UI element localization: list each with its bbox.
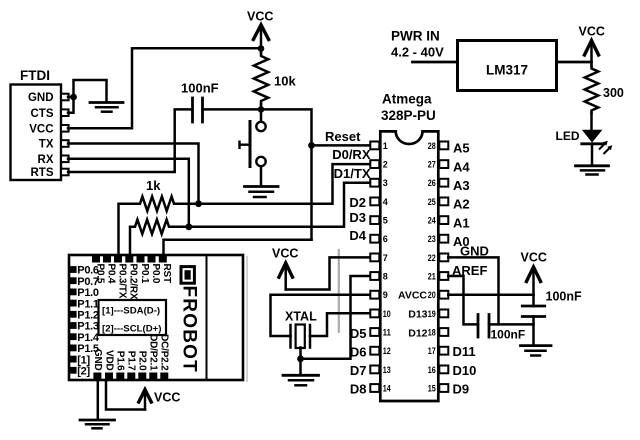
- wire module GND to ground: [97, 380, 100, 419]
- svg-text:328P-PU: 328P-PU: [381, 108, 436, 123]
- U1 pin 5: [370, 216, 388, 226]
- FTDI pin RTS: [31, 167, 69, 179]
- module pin P0.7: [70, 276, 99, 288]
- svg-text:7: 7: [383, 253, 388, 263]
- wire pin 20 AVCC to VCC: [448, 293, 533, 296]
- svg-text:D0/RX: D0/RX: [332, 147, 371, 162]
- svg-text:P0.5: P0.5: [94, 264, 105, 284]
- U1 pin 28: [428, 141, 449, 151]
- svg-text:P0.2/RX: P0.2/RX: [128, 264, 139, 300]
- module pin P0.2/RX: [125, 256, 138, 300]
- U1 pin 2: [370, 160, 388, 170]
- wire FTDI VCC to VCC rail: [68, 48, 261, 128]
- svg-text:LM317: LM317: [486, 63, 528, 78]
- wire LED to ground: [591, 144, 594, 165]
- U1 pin 4: [370, 197, 388, 207]
- svg-text:VCC: VCC: [154, 391, 180, 405]
- U1 pin 6: [370, 234, 388, 244]
- module pin P1.2: [70, 310, 99, 322]
- svg-text:D6: D6: [350, 345, 367, 360]
- svg-text:GND: GND: [28, 92, 54, 104]
- wire FTDI RX to node D1: [68, 159, 189, 227]
- FTDI connector body: [11, 85, 62, 181]
- wire junction to FTDI CTS: [68, 97, 74, 113]
- svg-text:Reset: Reset: [325, 129, 361, 144]
- svg-text:VCC: VCC: [272, 247, 298, 261]
- wire C1 to reset junction: [203, 108, 262, 111]
- U1 pin 15: [428, 383, 449, 393]
- svg-text:4: 4: [383, 197, 388, 207]
- svg-text:10k: 10k: [274, 74, 296, 89]
- svg-text:25: 25: [428, 197, 436, 207]
- svg-text:2: 2: [383, 160, 388, 170]
- wire AVCC node to C3: [532, 295, 535, 306]
- ground (module): [80, 420, 115, 428]
- svg-text:5: 5: [383, 216, 388, 226]
- module logo DFROBOT: [179, 267, 200, 373]
- FTDI pin GND: [28, 92, 69, 104]
- U1 pin 7: [370, 253, 388, 263]
- svg-text:D2: D2: [349, 195, 366, 210]
- VCC arrow (AVCC): [526, 267, 542, 295]
- svg-text:VCC: VCC: [247, 10, 273, 24]
- svg-text:D1/TX: D1/TX: [334, 166, 371, 181]
- module pin P2.0: [137, 351, 148, 380]
- svg-text:PWR IN: PWR IN: [391, 28, 440, 43]
- svg-text:10: 10: [383, 309, 391, 319]
- wire crystal left to pin 9: [271, 295, 371, 336]
- svg-text:15: 15: [428, 383, 436, 393]
- module pin VDD: [103, 350, 114, 380]
- svg-text:P1.6: P1.6: [115, 351, 126, 371]
- svg-text:24: 24: [428, 216, 436, 226]
- U1 pin 20: [428, 290, 449, 300]
- module pin GND: [92, 349, 103, 380]
- wire reset junction to reset vertical: [261, 109, 312, 239]
- U1 pin 10: [370, 309, 391, 319]
- VCC arrow (top): [253, 25, 270, 49]
- wire junction to ground: [74, 80, 107, 101]
- junction node D0: [195, 200, 202, 207]
- module pin DD/P2.1: [148, 334, 159, 379]
- U1 pin 21: [428, 271, 449, 281]
- svg-text:DD/P2.1: DD/P2.1: [148, 334, 159, 371]
- module pin P1.4: [70, 332, 100, 344]
- resistor R3 1k (RX line): [133, 220, 171, 234]
- resistor R1 10k: [254, 53, 268, 104]
- module pin P1.6: [115, 351, 126, 380]
- wire VCC to pin 7: [286, 257, 370, 289]
- svg-text:Atmega: Atmega: [382, 92, 432, 107]
- svg-text:D9: D9: [453, 381, 470, 396]
- wire node D0 to pin 2: [199, 164, 371, 204]
- U1 pin 8: [370, 271, 388, 281]
- svg-text:A1: A1: [453, 215, 470, 230]
- module pin P0.4: [103, 256, 116, 284]
- wire node D1 to pin 3: [189, 183, 370, 227]
- wire LM317 to VCC node: [557, 61, 592, 64]
- svg-text:DC/P2.2: DC/P2.2: [159, 334, 170, 371]
- svg-text:[1]---SDA(D-): [1]---SDA(D-): [102, 306, 160, 317]
- svg-text:3: 3: [383, 178, 388, 188]
- module pin [2]: [70, 366, 91, 378]
- capacitor C3 100nF (VCC decoupling): [522, 306, 544, 317]
- IC U1 body with notch: [380, 131, 438, 401]
- svg-text:TX: TX: [39, 139, 54, 151]
- svg-text:P1.1: P1.1: [77, 298, 99, 310]
- svg-text:300: 300: [603, 86, 624, 100]
- svg-text:1k: 1k: [146, 178, 161, 193]
- svg-text:22: 22: [428, 253, 436, 263]
- module I2C note box: [99, 300, 167, 335]
- U1 pin 18: [428, 327, 449, 337]
- svg-text:A5: A5: [453, 141, 470, 156]
- module inner divider: [206, 255, 208, 380]
- VCC arrow (LM317 output): [584, 41, 600, 67]
- svg-text:28: 28: [428, 141, 436, 151]
- wire FTDI TX to node D0: [68, 144, 199, 204]
- node VCC / 10k top junction: [258, 45, 265, 52]
- resistor R2 1k (TX line): [138, 197, 176, 211]
- capacitor C1 100nF: [193, 98, 203, 122]
- FTDI pin TX: [39, 139, 69, 151]
- U1 pin 11: [370, 327, 391, 337]
- wire FTDI RTS to capacitor C1: [68, 109, 193, 172]
- junction FTDI GND/CTS: [70, 94, 77, 101]
- LED D1: [582, 130, 613, 154]
- svg-text:AVCC: AVCC: [398, 289, 427, 301]
- module pin P1.5: [70, 343, 99, 355]
- svg-text:4.2 - 40V: 4.2 - 40V: [391, 45, 444, 60]
- svg-text:D11: D11: [453, 344, 476, 359]
- svg-text:P1.0: P1.0: [77, 287, 99, 299]
- svg-text:11: 11: [383, 327, 391, 337]
- svg-text:P0.4: P0.4: [105, 264, 116, 284]
- node Reset rail junction: [258, 106, 265, 113]
- module pin P0.0: [148, 256, 161, 284]
- wire PWR IN to LM317: [413, 61, 458, 64]
- module pin RST: [159, 256, 172, 283]
- svg-text:P1.2: P1.2: [77, 310, 99, 322]
- module pin DC/P2.2: [159, 334, 170, 379]
- svg-text:VDD: VDD: [103, 350, 114, 371]
- ground (AVCC decoupling): [521, 346, 552, 356]
- module U2 DFRobot body: [69, 255, 243, 380]
- U1 pin 3: [370, 178, 388, 188]
- wire R4 to LED: [590, 113, 593, 130]
- svg-text:GND: GND: [92, 349, 103, 371]
- svg-text:P0.0: P0.0: [150, 264, 161, 284]
- FTDI pin RX: [38, 154, 69, 166]
- junction Reset at pin 1: [308, 142, 315, 149]
- svg-text:RTS: RTS: [31, 167, 54, 179]
- svg-text:FTDI: FTDI: [20, 68, 50, 83]
- svg-text:P1.4: P1.4: [77, 332, 100, 344]
- ground (crystal): [283, 375, 319, 385]
- svg-text:D3: D3: [349, 210, 366, 225]
- svg-text:RST: RST: [161, 264, 172, 283]
- module pin P1.0: [70, 287, 99, 299]
- U1 pin 1: [370, 141, 388, 151]
- wire Reset to pin 1: [312, 144, 371, 147]
- svg-text:[2]: [2]: [77, 366, 90, 378]
- U1 pin 22: [428, 253, 449, 263]
- svg-text:P0.1: P0.1: [139, 264, 150, 284]
- wire FTDI GND to junction: [68, 96, 74, 99]
- svg-text:VCC: VCC: [29, 124, 53, 136]
- resistor R4 300: [585, 66, 599, 113]
- U1 pin 26: [428, 178, 449, 188]
- svg-text:D12: D12: [408, 327, 427, 339]
- svg-text:CTS: CTS: [31, 108, 54, 120]
- svg-text:100nF: 100nF: [181, 81, 219, 96]
- module pin P1.1: [70, 298, 99, 310]
- scan artifact gray line (module shadow): [246, 256, 248, 382]
- svg-text:P1.3: P1.3: [77, 321, 99, 333]
- pushbutton S1: [240, 120, 266, 168]
- svg-text:12: 12: [383, 346, 391, 356]
- svg-text:16: 16: [428, 365, 436, 375]
- ground (FTDI): [90, 103, 123, 112]
- U1 pin 13: [370, 365, 391, 375]
- U1 pin 27: [428, 160, 449, 170]
- svg-text:14: 14: [383, 383, 391, 393]
- wire pin 22 GND to ground rail: [448, 257, 498, 324]
- wire module VDD to VCC: [106, 380, 145, 410]
- module pin P1.3: [70, 321, 99, 333]
- U1 pin 16: [428, 365, 449, 375]
- wire crystal to ground: [299, 348, 302, 375]
- svg-text:P0.3/TX: P0.3/TX: [116, 264, 127, 299]
- svg-text:LED: LED: [556, 129, 580, 143]
- module pin P0.3/TX: [114, 256, 127, 299]
- module pin P1.7: [126, 351, 137, 380]
- wire 10k junction to button: [260, 109, 263, 121]
- U1 pin 12: [370, 346, 391, 356]
- crystal Y1: [291, 325, 311, 349]
- svg-text:D8: D8: [350, 382, 367, 397]
- module pin P0.6: [70, 265, 99, 277]
- svg-text:27: 27: [428, 160, 436, 170]
- scan artifact gray line (center): [338, 249, 340, 333]
- wire pin 21 AREF to capacitor C2: [448, 276, 478, 324]
- svg-text:[1]: [1]: [77, 354, 90, 366]
- VCC arrow (pin 7): [278, 263, 293, 290]
- regulator U3 LM317: [458, 41, 557, 91]
- svg-text:D5: D5: [350, 326, 367, 341]
- ground (button): [245, 187, 279, 198]
- svg-text:RX: RX: [38, 154, 54, 166]
- VCC arrow (module VDD): [138, 390, 152, 410]
- svg-text:D4: D4: [349, 228, 366, 243]
- svg-text:P2.0: P2.0: [137, 351, 148, 371]
- svg-text:23: 23: [428, 234, 436, 244]
- svg-text:[2]---SCL(D+): [2]---SCL(D+): [102, 324, 161, 335]
- wire C3 to ground: [532, 317, 535, 346]
- svg-text:100nF: 100nF: [546, 290, 582, 304]
- svg-text:P1.7: P1.7: [126, 351, 137, 371]
- U1 pin 9: [370, 290, 388, 300]
- svg-text:A2: A2: [453, 197, 470, 212]
- svg-text:19: 19: [428, 309, 436, 319]
- svg-text:VCC: VCC: [579, 24, 605, 38]
- U1 pin 14: [370, 383, 391, 393]
- module pin P0.5: [92, 256, 105, 284]
- ground (LED): [576, 166, 609, 175]
- wire pin 8 to crystal ground node: [301, 276, 371, 359]
- junction node D1: [185, 223, 192, 230]
- U1 pin 24: [428, 216, 449, 226]
- svg-text:20: 20: [428, 290, 436, 300]
- svg-text:9: 9: [383, 290, 388, 300]
- svg-text:100nF: 100nF: [491, 328, 526, 342]
- svg-text:1: 1: [383, 141, 388, 151]
- wire C2 to ground rail: [489, 323, 534, 326]
- svg-text:A3: A3: [453, 178, 470, 193]
- svg-text:18: 18: [428, 327, 436, 337]
- wire Reset to module RST: [164, 240, 312, 256]
- svg-text:26: 26: [428, 178, 436, 188]
- U1 pin 25: [428, 197, 449, 207]
- svg-text:D7: D7: [350, 363, 367, 378]
- module pin P0.1: [137, 256, 150, 284]
- U1 pin 23: [428, 234, 449, 244]
- svg-text:8: 8: [383, 271, 388, 281]
- svg-text:D13: D13: [408, 309, 427, 321]
- U1 pin 19: [428, 309, 449, 319]
- svg-text:13: 13: [383, 365, 391, 375]
- wire button to ground: [260, 166, 263, 186]
- FTDI pin VCC: [29, 124, 68, 136]
- svg-text:A4: A4: [453, 159, 470, 174]
- svg-text:FROBOT: FROBOT: [179, 286, 200, 373]
- FTDI pin CTS: [31, 108, 69, 120]
- wire crystal right to pin 10: [310, 313, 370, 336]
- svg-text:17: 17: [428, 346, 436, 356]
- U1 pin 17: [428, 346, 449, 356]
- svg-text:D10: D10: [453, 363, 477, 378]
- svg-text:XTAL: XTAL: [285, 310, 317, 324]
- capacitor C2 100nF (AREF): [478, 315, 489, 338]
- junction crystal ground node: [297, 355, 304, 362]
- module pin [1]: [70, 354, 91, 366]
- svg-text:6: 6: [383, 234, 388, 244]
- svg-text:21: 21: [428, 271, 436, 281]
- svg-text:VCC: VCC: [521, 251, 547, 265]
